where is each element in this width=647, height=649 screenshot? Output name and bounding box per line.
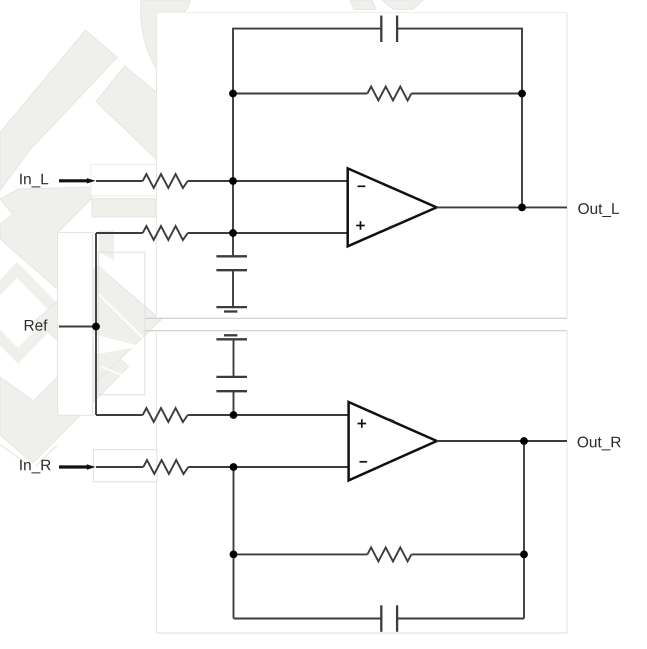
node Ref xyxy=(92,323,100,331)
resistor R6 (feedback R) xyxy=(367,547,411,561)
label In_L xyxy=(20,174,48,188)
node L plus xyxy=(229,229,237,237)
port In_R arrow xyxy=(59,465,87,468)
capacitor C1 (top feedback) xyxy=(381,16,397,43)
wire op-amp U2 output xyxy=(437,440,567,442)
capacitor C2 (L non-inv to gnd) xyxy=(216,256,247,270)
resistor R2 (feedback L) xyxy=(367,87,411,101)
wire plus row R to op-amp xyxy=(188,414,349,416)
op-amp U1 xyxy=(348,168,437,246)
capacitor C3 (R non-inv to gnd) xyxy=(216,377,247,391)
op-amp U2 xyxy=(349,402,437,480)
node R output xyxy=(520,437,528,445)
wire top feedback cap left segment L xyxy=(233,29,381,233)
wire In_R node to op-amp inverting input xyxy=(188,466,348,468)
resistor R3 (non-inv L) xyxy=(143,226,188,240)
node R feedback left xyxy=(230,551,238,559)
wire plus row L xyxy=(96,232,143,234)
wire bottom feedback cap right segment R xyxy=(397,618,524,620)
wire left node column R xyxy=(233,467,235,619)
node L output xyxy=(518,204,526,212)
wire plus row R left xyxy=(96,414,143,416)
port In_L arrow xyxy=(59,179,87,182)
resistor R1 (In_L input) xyxy=(143,174,188,188)
wire In_L to resistor xyxy=(96,180,143,182)
wire Ref bus vertical xyxy=(95,233,97,415)
node R input xyxy=(230,463,238,471)
wire op-amp U1 output xyxy=(437,206,567,208)
wire cap C3 bottom lead xyxy=(233,392,235,415)
resistor R4 (non-inv R) xyxy=(143,408,188,422)
node L input xyxy=(229,177,237,185)
label In_R xyxy=(20,460,50,474)
wire cap C2 bottom lead xyxy=(232,271,234,306)
wire In_L node to op-amp inverting input xyxy=(188,180,348,182)
wire In_R to resistor xyxy=(96,466,143,468)
wire top feedback cap right segment L xyxy=(397,29,522,208)
wire cap C3 top lead xyxy=(233,340,235,376)
ground (R) xyxy=(216,335,247,339)
node R plus xyxy=(230,411,238,419)
node L feedback right xyxy=(518,90,526,98)
wire feedback resistor row L left xyxy=(233,93,367,95)
wire Ref stub xyxy=(59,326,96,328)
capacitor C4 (bottom feedback) xyxy=(381,605,397,632)
wire right column R xyxy=(523,441,525,619)
label Out_R xyxy=(578,437,621,451)
wire cap C2 top lead xyxy=(232,233,234,256)
resistor R5 (In_R input) xyxy=(143,460,188,474)
wire feedback resistor row R left xyxy=(234,553,368,555)
wire bottom feedback cap left segment R xyxy=(234,618,382,620)
node R feedback right xyxy=(520,551,528,559)
label Ref xyxy=(25,319,48,330)
wire feedback resistor row L right xyxy=(411,93,522,95)
label Out_L xyxy=(578,203,619,217)
wire feedback resistor row R right xyxy=(411,553,524,555)
node L feedback left xyxy=(229,90,237,98)
ground (L) xyxy=(216,307,247,311)
wire plus row L to op-amp xyxy=(188,232,348,234)
